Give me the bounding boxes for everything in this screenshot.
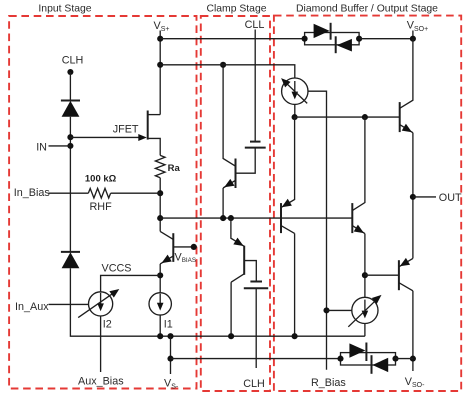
transistor Q6 collector slant (399, 283, 413, 291)
svg-text:R_Bias: R_Bias (311, 377, 346, 389)
node Q2 collector rail junction (220, 62, 226, 68)
svg-text:100 kΩ: 100 kΩ (85, 173, 117, 184)
wire rail1 top (160, 38, 304, 40)
diode D3 (points right) (314, 23, 331, 40)
wire P3 collector to bottom rail (294, 233, 296, 336)
svg-text:In_Aux: In_Aux (15, 301, 49, 313)
wire CS1 bottom (294, 104, 296, 117)
wire gate wire to JFET (70, 136, 140, 138)
transistor Q6 emitter slant (399, 258, 413, 266)
node Q2 emitter junction (220, 215, 226, 221)
diode D2 (In_Aux clamp) (61, 252, 80, 268)
current source CS1 variable arrow (278, 75, 307, 103)
node DP1 left junction (302, 36, 308, 42)
wire VS+ vertical (159, 31, 161, 115)
transistor Q4 emitter slant (352, 226, 365, 234)
wire rail5 R_Bias rail (171, 358, 341, 360)
svg-text:Diamond Buffer / Output Stage: Diamond Buffer / Output Stage (296, 4, 438, 15)
wire CS2 left control (327, 309, 352, 311)
svg-text:Aux_Bias: Aux_Bias (78, 376, 124, 388)
node VS- junction (167, 333, 173, 339)
node P3 collector rail junction (292, 333, 298, 339)
current source I2 variable arrow (78, 286, 121, 318)
wire mid rail (160, 217, 352, 219)
node VCCS junction (157, 272, 163, 278)
wire In_Bias lead (49, 192, 89, 194)
node DP2 right junction (392, 356, 398, 362)
wire CS2 bottom to rail (364, 324, 366, 337)
JFET gate arrowhead (138, 134, 147, 141)
node R_Bias to CS2 junction (323, 307, 329, 313)
wire Q5 emitter to OUT node (412, 133, 414, 259)
svg-text:VCCS: VCCS (102, 262, 132, 274)
node VSO+ junction (410, 36, 416, 42)
node Q3 collector rail junction (228, 333, 234, 339)
svg-text:Input Stage: Input Stage (38, 4, 91, 15)
wire JFET source (148, 138, 161, 155)
node CS1 rail3 junction (292, 114, 298, 120)
transistor Q5 collector wire (400, 39, 413, 109)
transistor P3 base bar (280, 203, 282, 233)
svg-text:IN: IN (36, 141, 47, 153)
transistor Q3 emitter arrow (pnp into bar) (233, 238, 245, 250)
current source CS2 inner arrow (362, 300, 369, 319)
wire Q1 emitter to I1 (159, 264, 161, 293)
current source CS2 variable arrow (348, 292, 384, 327)
antiparallel diode pair DP1 box (305, 33, 360, 45)
current source CS1 inner arrow (292, 81, 299, 99)
wire Q3 base to B2 (244, 261, 256, 282)
transistor Q5 base bar (399, 102, 401, 132)
transistor P3 emitter arrow (pnp into bar) (280, 199, 292, 211)
wire D2 to bottom rail corner (70, 268, 365, 336)
wire Q1 base lead (173, 246, 194, 248)
transistor Q3 collector slant (231, 274, 244, 282)
wire rail4 to Q6 base (365, 274, 399, 276)
battery B1 short plate (250, 141, 261, 143)
wire I2 to Aux_Bias (100, 316, 102, 372)
transistor Q6 base bar (398, 260, 400, 290)
battery B2 short plate (250, 281, 262, 283)
wire CLL vertical (254, 30, 256, 142)
svg-text:RHF: RHF (89, 201, 112, 213)
svg-text:I2: I2 (103, 319, 112, 331)
wire VSO+ vertical (412, 31, 414, 39)
transistor Q2 emitter arrow (222, 179, 234, 191)
wire In_Aux lead to I2 (49, 303, 89, 305)
battery B2 long plate (244, 287, 268, 289)
output stage boundary box (274, 16, 461, 391)
resistor RHF 100k zigzag (88, 188, 110, 198)
transistor Q6 emitter arrow (pnp into bar) (398, 258, 410, 270)
node OUT junction (410, 194, 416, 200)
transistor P3 emitter wire (281, 117, 295, 208)
input stage boundary box (9, 16, 196, 389)
transistor Q4 emitter arrow (354, 225, 366, 237)
transistor J1 JFET channel bar (147, 111, 149, 140)
node VS+ top rail junction (157, 36, 163, 42)
wire rail2 from VS+ to CS1 (160, 65, 295, 78)
transistor P3 collector slant (281, 226, 295, 234)
node VS+ second rail junction (157, 62, 163, 68)
diode D5 (points right) (349, 343, 366, 362)
wire DP2 right to VSO- column (396, 358, 413, 360)
node I1 bottom rail junction (157, 333, 163, 339)
current source CS1 circle (282, 78, 308, 104)
current source I1 circle (149, 293, 171, 315)
svg-text:Clamp Stage: Clamp Stage (206, 4, 266, 15)
transistor Q4 collector slant (352, 117, 365, 211)
node Q3 emitter junction (228, 215, 234, 221)
node DP2 left junction (337, 356, 343, 362)
wire RHF to node (111, 192, 161, 194)
wire OUT lead (413, 196, 436, 198)
current source I2 circle (89, 292, 113, 316)
antiparallel diode pair DP2 box (341, 353, 396, 365)
transistor Q5 emitter slant (400, 125, 413, 133)
transistor Q3 base bar (243, 246, 245, 275)
wire VCCS control (101, 275, 161, 292)
current source CS2 circle (352, 297, 378, 323)
clamp stage boundary box (201, 16, 270, 391)
node VSO- junction (410, 356, 416, 362)
wire JFET drain (148, 114, 161, 116)
transistor Q1 VBIAS npn collector slant (160, 231, 173, 239)
wire VS- drop (170, 336, 172, 374)
svg-text:CLH: CLH (243, 378, 265, 390)
node IN junction (67, 143, 73, 149)
transistor Q2 collector wire (223, 65, 235, 166)
wire Q4 emitter to rail4 (364, 234, 366, 298)
wire I1 to bottom rail (159, 315, 161, 336)
transistor Q5 emitter arrow (402, 124, 414, 136)
resistor Ra zigzag (155, 155, 165, 177)
wire Q3 emitter drop (231, 218, 244, 246)
wire Ra bottom to VBIAS transistor (159, 178, 161, 232)
transistor Q1 emitter slant (160, 256, 173, 264)
svg-text:Ra: Ra (168, 163, 181, 174)
transistor Q2 emitter slant (223, 180, 235, 188)
diode D1 (CLH clamp) (61, 101, 80, 117)
svg-text:CLL: CLL (245, 19, 265, 31)
node In_Bias junction (157, 190, 163, 196)
wire Q3 collector to bottom rail (230, 282, 232, 336)
wire B1 to Q2 base (236, 148, 255, 174)
transistor Q4 base bar (351, 203, 353, 233)
svg-text:OUT: OUT (439, 192, 462, 204)
wire CLH to diode D1 (69, 72, 71, 101)
svg-text:I1: I1 (164, 319, 173, 331)
wire B2 to CLH pin (255, 288, 257, 368)
svg-text:In_Bias: In_Bias (14, 187, 51, 199)
svg-text:CLH: CLH (62, 55, 84, 67)
wire DP1 to VSO+ (359, 38, 413, 40)
node DP1 right junction (356, 36, 362, 42)
node gate junction (67, 134, 73, 140)
wire rail3 to Q5 base (295, 116, 400, 118)
wire CS1 right to R_Bias column (308, 91, 327, 370)
transistor Q2 base bar (235, 159, 237, 189)
current source I1 inner arrow (157, 294, 164, 311)
diode D6 (points left) (372, 355, 389, 374)
node CLH terminal (67, 69, 73, 75)
diode D4 (points left) (336, 36, 352, 53)
wire Q6 collector to VSO- node (412, 291, 414, 371)
transistor Q1 emitter arrow (159, 255, 171, 267)
node mid-rail junction (157, 215, 163, 221)
svg-text:JFET: JFET (113, 123, 139, 135)
battery B1 long plate (245, 147, 266, 149)
node rail4 junction (362, 272, 368, 278)
wire Q2 emitter to mid rail (222, 188, 224, 218)
node R_Bias rail junction (167, 356, 173, 362)
current source I2 inner arrow (97, 293, 104, 311)
wire IN lead (49, 145, 71, 147)
node Q4 collector rail3 junction (362, 114, 368, 120)
transistor Q1 base bar (172, 233, 174, 262)
node VBIAS terminal dot (191, 244, 197, 250)
wire D1 to D2 vertical (69, 117, 71, 252)
